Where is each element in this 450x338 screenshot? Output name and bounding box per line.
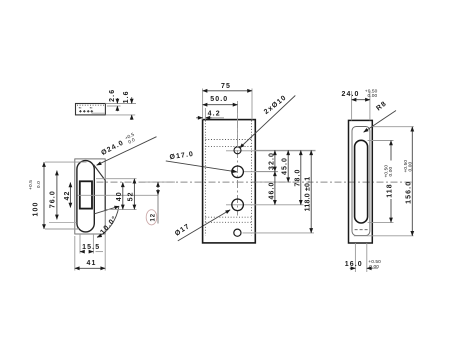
svg-text:1.6: 1.6 — [123, 90, 130, 103]
svg-text:16.0: 16.0 — [345, 261, 363, 268]
svg-text:156.0: 156.0 — [406, 181, 413, 204]
svg-text:0.00: 0.00 — [388, 167, 394, 177]
svg-text:0.00: 0.00 — [369, 264, 379, 270]
svg-text:15.5: 15.5 — [82, 244, 100, 251]
svg-text:0.00: 0.00 — [368, 93, 378, 99]
svg-text:+0.5: +0.5 — [28, 180, 34, 190]
svg-text:46.0: 46.0 — [268, 181, 275, 199]
svg-text:24.0: 24.0 — [341, 91, 359, 98]
svg-text:100: 100 — [33, 202, 40, 217]
svg-text:118.0 ±0.1: 118.0 ±0.1 — [305, 177, 312, 212]
svg-text:50.0: 50.0 — [210, 96, 228, 103]
svg-text:52: 52 — [127, 191, 134, 201]
svg-text:32.0: 32.0 — [268, 152, 275, 170]
svg-text:0.0: 0.0 — [36, 181, 42, 188]
svg-text:75: 75 — [221, 83, 231, 90]
svg-text:41: 41 — [87, 260, 97, 267]
svg-text:118: 118 — [387, 183, 394, 198]
svg-text:40: 40 — [116, 191, 123, 201]
svg-text:76.0: 76.0 — [50, 190, 57, 208]
svg-text:4.2: 4.2 — [208, 111, 221, 118]
svg-text:78.0: 78.0 — [294, 168, 301, 186]
svg-text:45.0: 45.0 — [282, 157, 289, 175]
svg-text:12: 12 — [151, 213, 157, 221]
svg-text:2.6: 2.6 — [109, 89, 116, 102]
svg-text:0.00: 0.00 — [407, 162, 413, 172]
svg-text:42: 42 — [64, 191, 71, 201]
